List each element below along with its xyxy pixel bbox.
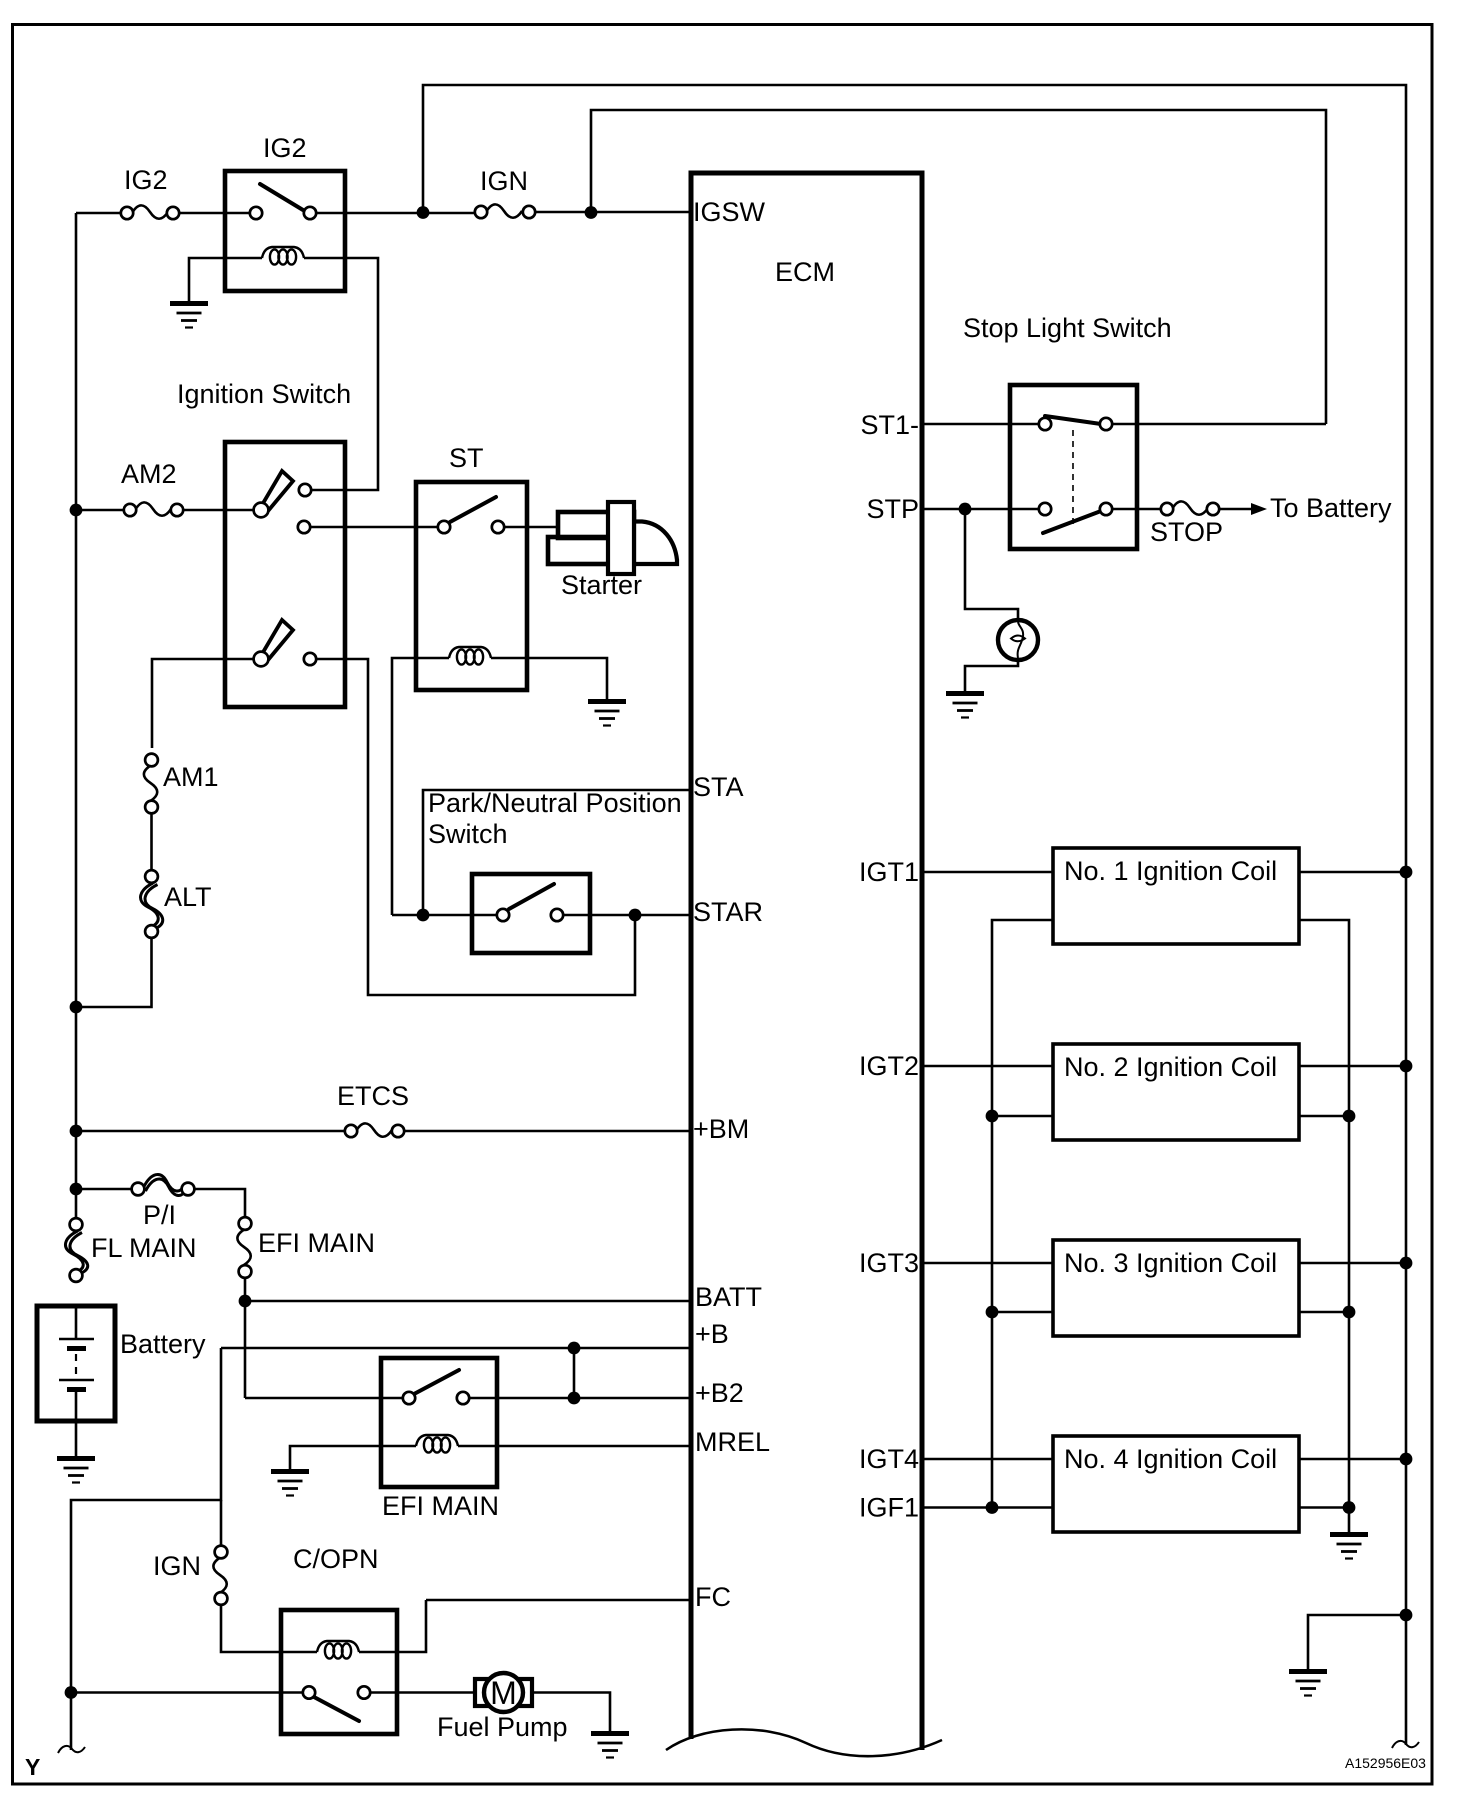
wire: IGT4 line xyxy=(922,1458,1053,1461)
battery internal wire bottom xyxy=(75,1392,78,1456)
ground (coil ground bus) xyxy=(1330,1535,1368,1559)
node: junction IGSW/top loop A xyxy=(417,206,430,219)
svg-text:Stop Light Switch: Stop Light Switch xyxy=(963,313,1172,343)
relay ST xyxy=(392,443,626,915)
wire: ST coil left to STAR line xyxy=(392,658,449,915)
svg-text:IG2: IG2 xyxy=(263,133,307,163)
svg-text:To Battery: To Battery xyxy=(1270,493,1392,523)
starter xyxy=(548,502,677,600)
stop switch contacts STP xyxy=(1039,503,1051,515)
battery xyxy=(37,1306,206,1483)
wire: ST1- right to loop B xyxy=(1112,423,1326,426)
node: ALT junction on bus xyxy=(70,1001,83,1014)
ECM box xyxy=(666,173,942,1756)
node: +B junction xyxy=(568,1342,581,1355)
EFI MAIN relay lever xyxy=(414,1370,459,1394)
wire: coil3 bottom right xyxy=(1299,1311,1349,1314)
wire: ignition ST contact loop to STAR xyxy=(316,659,635,995)
starter solenoid upper body xyxy=(558,512,634,538)
wire: coil1 bottom left xyxy=(992,920,1053,1508)
wire: +B line xyxy=(221,1347,691,1350)
node: +B2 junction xyxy=(568,1392,581,1405)
svg-text:IGN: IGN xyxy=(153,1551,201,1581)
wire: IGT1 line xyxy=(922,871,1053,874)
svg-text:ALT: ALT xyxy=(164,882,212,912)
ECM torn bottom edge xyxy=(666,1729,942,1756)
svg-text:IG2: IG2 xyxy=(124,165,168,195)
fuse AM1 xyxy=(144,754,219,814)
node: +BM junction on bus xyxy=(70,1125,83,1138)
wire: STP from ECM xyxy=(922,508,1039,511)
node: IGF1 bus junction xyxy=(986,1501,999,1514)
wire: +B to +B2 tie xyxy=(573,1348,576,1398)
wire: ALT down to left bus junction xyxy=(76,938,152,1007)
svg-text:Park/Neutral Position: Park/Neutral Position xyxy=(428,788,682,818)
battery plates xyxy=(59,1338,94,1341)
stop switch contacts ST1- xyxy=(1039,418,1051,430)
svg-text:EFI MAIN: EFI MAIN xyxy=(258,1228,375,1258)
svg-text:FL MAIN: FL MAIN xyxy=(91,1233,197,1263)
wire: fuel pump to ground xyxy=(532,1693,610,1732)
fuse STOP xyxy=(1150,501,1223,547)
svg-text:Y: Y xyxy=(25,1754,40,1780)
C/OPN relay lever xyxy=(314,1697,359,1721)
wire A: junction up over top to right bus xyxy=(423,85,1406,1745)
svg-text:BATT: BATT xyxy=(695,1282,762,1312)
fuse IGN (bottom) xyxy=(153,1546,227,1605)
wire: coil1 bottom right xyxy=(1299,920,1349,1532)
wire: coil4 right to bus xyxy=(1299,1458,1406,1461)
wire: bottom feed to C/OPN contact xyxy=(71,1691,303,1694)
ignition coil 2 xyxy=(1053,1044,1299,1140)
ignition switch lower contact xyxy=(304,653,316,665)
node: junction IGSW/loop B xyxy=(585,206,598,219)
svg-text:P/I: P/I xyxy=(143,1200,176,1230)
svg-text:No. 2 Ignition Coil: No. 2 Ignition Coil xyxy=(1064,1052,1277,1082)
node: right bus ground junction xyxy=(1400,1609,1413,1622)
wire: STA from ECM xyxy=(423,790,691,915)
ignition switch upper wedge lever xyxy=(262,471,293,511)
EFI MAIN relay coil xyxy=(416,1435,458,1453)
fuse IGN xyxy=(475,166,535,218)
wire: STAR line left portion xyxy=(392,914,497,917)
wire: AM2 fuse to ignition switch pivot xyxy=(183,509,254,512)
svg-text:STOP: STOP xyxy=(1150,517,1223,547)
ignition coil 3 xyxy=(1053,1240,1299,1336)
svg-text:A152956E03: A152956E03 xyxy=(1345,1755,1426,1771)
svg-text:No. 3 Ignition Coil: No. 3 Ignition Coil xyxy=(1064,1248,1277,1278)
IG2 relay contacts xyxy=(250,207,262,219)
svg-text:ETCS: ETCS xyxy=(337,1081,409,1111)
P/N switch lever xyxy=(509,884,554,909)
svg-text:IGT2: IGT2 xyxy=(859,1051,919,1081)
ignition coil 1 xyxy=(1053,848,1299,944)
svg-text:AM1: AM1 xyxy=(163,762,219,792)
starter motor lower body xyxy=(548,537,634,564)
ground (EFI MAIN coil) xyxy=(271,1472,309,1496)
wire: coil3 right to bus xyxy=(1299,1262,1406,1265)
wire: FC line to ECM xyxy=(426,1599,691,1602)
wire: coil2 right to bus xyxy=(1299,1065,1406,1068)
wire: IGT2 line xyxy=(922,1065,1053,1068)
wire: ETCS to ECM +BM xyxy=(404,1130,691,1133)
svg-text:IGN: IGN xyxy=(480,166,528,196)
node: coil2 IGF junction xyxy=(986,1110,999,1123)
svg-text:ST1-: ST1- xyxy=(860,410,919,440)
wire: MREL coil to ECM xyxy=(458,1445,691,1448)
left bus vertical (battery feed) xyxy=(75,213,78,1218)
wire: coil4 bottom right xyxy=(1299,1506,1349,1509)
node: junction STA/coil/PN xyxy=(417,909,430,922)
node: coil4 bus junction xyxy=(1400,1453,1413,1466)
wire: coil3 bottom left xyxy=(992,1311,1053,1314)
break symbol right bus xyxy=(1392,1741,1419,1748)
stop lamp bulb xyxy=(998,620,1038,660)
C/OPN relay coil xyxy=(317,1641,359,1659)
wire: coil2 bottom left xyxy=(992,1115,1053,1118)
relay C/OPN xyxy=(281,1544,426,1734)
relay IG2 xyxy=(170,133,378,490)
wire: EFI coil left to ground xyxy=(290,1446,416,1469)
wire: bus to AM2 fuse xyxy=(76,509,124,512)
svg-text:+BM: +BM xyxy=(693,1114,749,1144)
svg-text:No. 4 Ignition Coil: No. 4 Ignition Coil xyxy=(1064,1444,1277,1474)
svg-text:No. 1 Ignition Coil: No. 1 Ignition Coil xyxy=(1064,856,1277,886)
svg-text:IGT1: IGT1 xyxy=(859,857,919,887)
wire: IGN fuse to C/OPN coil xyxy=(221,1605,317,1652)
wire: IG2 relay to IGN fuse xyxy=(316,212,475,215)
node: coil4 ground junction xyxy=(1343,1501,1356,1514)
ground (battery) xyxy=(57,1459,95,1483)
wire: ST coil right to ground xyxy=(491,658,607,699)
wire: ignition switch ST contact to ST relay xyxy=(310,526,438,529)
ground (stop lamp) xyxy=(946,694,984,718)
svg-text:+B: +B xyxy=(695,1319,729,1349)
wire: +B2 line left of relay xyxy=(245,1397,403,1400)
park/neutral position switch xyxy=(472,874,590,953)
wire: +BM line left part xyxy=(76,1130,345,1133)
starter pinion bar xyxy=(608,502,634,574)
svg-text:Switch: Switch xyxy=(428,819,508,849)
ignition switch lower wedge lever xyxy=(262,620,293,660)
svg-text:EFI MAIN: EFI MAIN xyxy=(382,1491,499,1521)
ST relay lever xyxy=(450,497,496,522)
break symbol bottom left xyxy=(58,1746,85,1753)
arrow to battery xyxy=(1251,503,1267,515)
node: coil2 ground-bus junction xyxy=(1343,1110,1356,1123)
node: coil1 bus junction xyxy=(1400,866,1413,879)
wire: +B tap down to IGN fuse xyxy=(220,1500,223,1546)
svg-text:FC: FC xyxy=(695,1582,731,1612)
node: junction C/OPN feed xyxy=(65,1686,78,1699)
wire: ST relay to starter xyxy=(504,526,560,529)
wire: +B2 line relay to ECM xyxy=(469,1397,691,1400)
wire: bus to P/I link xyxy=(76,1188,132,1191)
wire: main ignition feed (left bus top corner to IGSW) xyxy=(76,212,121,215)
wire: IG2 fuse to IG2 relay contact xyxy=(179,212,250,215)
svg-text:C/OPN: C/OPN xyxy=(293,1544,379,1574)
wire: ST1- from ECM xyxy=(922,423,1039,426)
battery internal wire top xyxy=(75,1306,78,1338)
svg-text:Fuel Pump: Fuel Pump xyxy=(437,1712,568,1742)
svg-text:IGSW: IGSW xyxy=(693,197,766,227)
stop light switch xyxy=(963,313,1172,549)
ground (IG2 relay coil) xyxy=(170,304,208,328)
ignition switch lower pivot xyxy=(254,652,269,667)
wire: AM1 to ALT xyxy=(150,813,153,871)
svg-text:M: M xyxy=(490,1675,517,1711)
fuel pump xyxy=(437,1673,568,1742)
fusible link ALT xyxy=(141,870,212,938)
ST relay coil xyxy=(449,647,491,665)
wire: P/I to EFI MAIN fuse xyxy=(194,1189,245,1217)
node: junction STAR xyxy=(629,909,642,922)
wire: IGF1 line xyxy=(922,1506,1053,1509)
svg-text:IGT4: IGT4 xyxy=(859,1444,919,1474)
IG2 relay coil xyxy=(262,247,304,265)
STP lever xyxy=(1043,511,1101,533)
svg-text:MREL: MREL xyxy=(695,1427,770,1457)
ignition switch xyxy=(177,379,351,707)
wire: right bus ground tap xyxy=(1308,1615,1406,1669)
fusible link FL MAIN xyxy=(65,1218,196,1282)
node: P/I junction on bus xyxy=(70,1183,83,1196)
wire: stop lamp feed xyxy=(965,509,1018,620)
starter drive housing xyxy=(634,522,677,565)
node: coil3 ground-bus junction xyxy=(1343,1306,1356,1319)
svg-text:AM2: AM2 xyxy=(121,459,177,489)
wire: IG2 coil left to ground xyxy=(189,258,262,301)
dashed link line xyxy=(1072,430,1074,528)
fuse ETCS xyxy=(337,1081,409,1137)
ST1- lever xyxy=(1045,416,1101,424)
wire: STAR to ECM xyxy=(563,914,691,917)
fuse AM2 xyxy=(121,459,183,516)
wire: IGT3 line xyxy=(922,1262,1053,1265)
wire: C/OPN coil right to FC riser xyxy=(359,1600,426,1652)
svg-text:Ignition Switch: Ignition Switch xyxy=(177,379,351,409)
ignition switch contact IG2 xyxy=(299,484,311,496)
IG2 relay lever xyxy=(260,184,303,210)
node: STP junction to stop lamp xyxy=(959,503,972,516)
svg-text:ST: ST xyxy=(449,443,484,473)
node: coil2 bus junction xyxy=(1400,1060,1413,1073)
P/N switch contacts xyxy=(497,909,509,921)
node: coil3 bus junction xyxy=(1400,1257,1413,1270)
svg-text:STAR: STAR xyxy=(693,897,763,927)
wire: coil2 bottom right xyxy=(1299,1115,1349,1118)
ST relay contacts xyxy=(438,521,450,533)
wire: +B drop to bottom feed xyxy=(71,1348,221,1750)
wire: IG2 coil right riser to ignition switch IG2 contact xyxy=(304,258,378,490)
wire B: junction up and right to stop light switch ST1- xyxy=(591,110,1326,424)
svg-text:Battery: Battery xyxy=(120,1329,206,1359)
svg-text:+B2: +B2 xyxy=(695,1378,744,1408)
ignition switch upper pivot xyxy=(254,503,269,518)
wire: STOP fuse to battery arrow xyxy=(1219,508,1251,511)
node: BATT junction xyxy=(239,1295,252,1308)
wire: coil1 right to bus xyxy=(1299,871,1406,874)
ground (fuel pump) xyxy=(591,1734,629,1758)
wire: EFI MAIN fuse down to +B2 line xyxy=(244,1278,247,1398)
wire: ignition switch to AM1 branch xyxy=(152,659,254,748)
svg-text:STA: STA xyxy=(693,772,744,802)
fuse IG2 xyxy=(121,165,179,219)
ignition switch contact ST upper xyxy=(298,521,310,533)
svg-text:STP: STP xyxy=(866,494,919,524)
node: AM2 junction on left bus xyxy=(70,504,83,517)
wire: STP right to STOP fuse xyxy=(1112,508,1161,511)
fuse EFI MAIN xyxy=(237,1217,375,1278)
EFI MAIN relay contacts xyxy=(403,1392,415,1404)
wire: C/OPN to fuel pump xyxy=(370,1691,478,1694)
fusible link P/I xyxy=(132,1174,195,1230)
wire: IGN fuse to ECM IGSW xyxy=(535,211,691,214)
svg-text:IGF1: IGF1 xyxy=(859,1493,919,1523)
svg-text:IGT3: IGT3 xyxy=(859,1248,919,1278)
C/OPN relay contacts xyxy=(303,1686,315,1698)
ground (ST relay coil) xyxy=(588,702,626,726)
ground (right bus) xyxy=(1289,1672,1327,1696)
wire: BATT to ECM xyxy=(245,1300,691,1303)
ignition coil 4 xyxy=(1053,1436,1299,1532)
svg-text:ECM: ECM xyxy=(775,257,835,287)
node: coil3 IGF junction xyxy=(986,1306,999,1319)
wire: stop lamp to ground xyxy=(965,660,1018,691)
relay EFI MAIN xyxy=(271,1358,499,1521)
